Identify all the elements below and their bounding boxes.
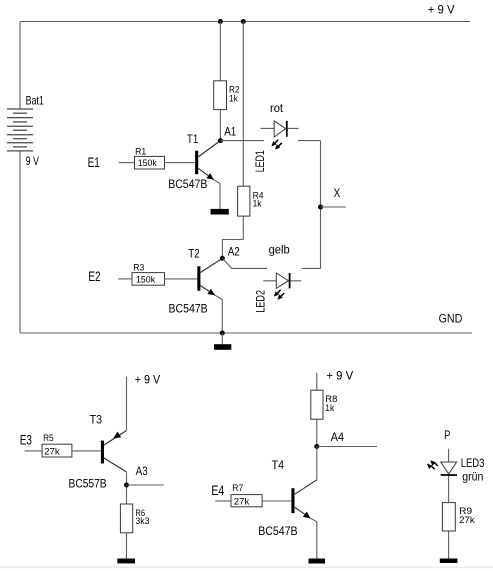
svg-text:E4: E4 [211,482,224,498]
svg-text:T3: T3 [90,413,103,427]
svg-text:27k: 27k [459,515,475,526]
svg-text:A1: A1 [224,124,236,138]
svg-text:R7: R7 [232,483,243,494]
svg-text:P: P [444,428,450,442]
svg-text:T4: T4 [272,458,285,472]
svg-text:BC547B: BC547B [168,177,207,191]
svg-text:Bat1: Bat1 [26,93,44,107]
svg-text:1k: 1k [325,403,334,414]
svg-text:LED3: LED3 [461,456,485,470]
svg-text:150k: 150k [136,274,155,285]
svg-text:150k: 150k [138,158,157,169]
svg-text:27k: 27k [234,497,250,508]
svg-text:A3: A3 [136,464,148,478]
svg-text:+ 9 V: + 9 V [428,3,455,17]
svg-text:3k3: 3k3 [135,516,149,527]
svg-text:A4: A4 [331,430,344,444]
svg-text:LED2: LED2 [254,290,268,313]
svg-text:E1: E1 [88,154,100,170]
svg-text:rot: rot [270,101,284,115]
svg-text:GND: GND [439,311,463,325]
svg-text:BC547B: BC547B [258,524,297,538]
svg-text:grün: grün [462,470,483,484]
svg-text:gelb: gelb [269,242,290,256]
svg-text:27k: 27k [44,447,60,458]
svg-text:BC557B: BC557B [69,476,107,490]
svg-text:T1: T1 [187,132,199,146]
svg-text:A2: A2 [228,244,240,258]
svg-text:+ 9 V: + 9 V [135,373,161,387]
svg-text:E2: E2 [88,268,100,284]
svg-text:BC547B: BC547B [169,301,208,315]
svg-text:1k: 1k [253,199,262,210]
svg-text:T2: T2 [188,246,200,260]
svg-text:X: X [334,186,341,200]
svg-text:R5: R5 [43,433,54,444]
svg-text:R1: R1 [135,146,146,157]
svg-text:E3: E3 [20,432,32,448]
svg-text:+ 9 V: + 9 V [326,369,353,383]
svg-text:LED1: LED1 [253,150,267,172]
svg-text:1k: 1k [229,93,238,104]
svg-text:9 V: 9 V [26,154,39,168]
svg-text:R3: R3 [133,263,144,274]
